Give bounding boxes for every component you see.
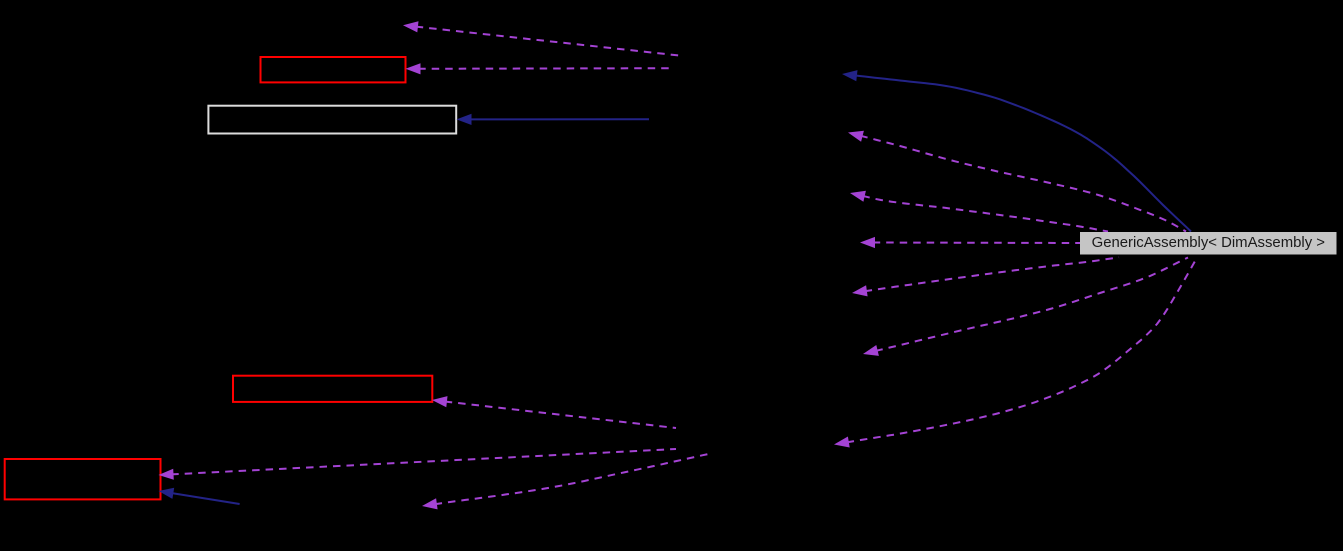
node box W1 (white border class) [208,106,456,134]
svg-text:GenericAssembly< DimAssembly >: GenericAssembly< DimAssembly > [1092,235,1325,251]
edge E10 [834,258,1197,448]
edge E4 [842,70,1191,231]
node box R1 (red, truncated class) [261,57,406,82]
edge E14 [159,488,240,504]
edge E7 [860,237,1080,248]
edge E12 [159,449,677,480]
edge E1 [403,21,679,55]
node GenericAssembly< DimAssembly > (current class, grey) [1080,232,1337,255]
edge E9 [863,258,1188,356]
edge E8 [852,257,1119,296]
edge E11 [432,396,676,428]
node box R2 (red) [233,376,432,402]
node box R3 (red, two-line) [5,459,161,499]
edge E3 [457,114,650,125]
edge E13 [422,453,713,509]
edge E2 [406,63,675,74]
edge E5 [848,131,1186,232]
edge E6 [850,191,1108,232]
